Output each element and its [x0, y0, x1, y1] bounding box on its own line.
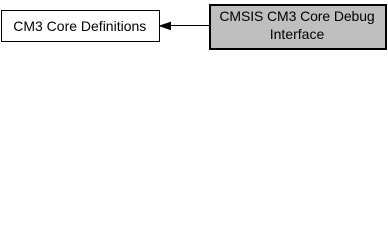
node: CMSIS CM3 Core Debug Interface [209, 4, 387, 50]
node: CM3 Core Definitions [1, 10, 160, 42]
wire [170, 25, 209, 26]
arrowhead [159, 21, 172, 31]
